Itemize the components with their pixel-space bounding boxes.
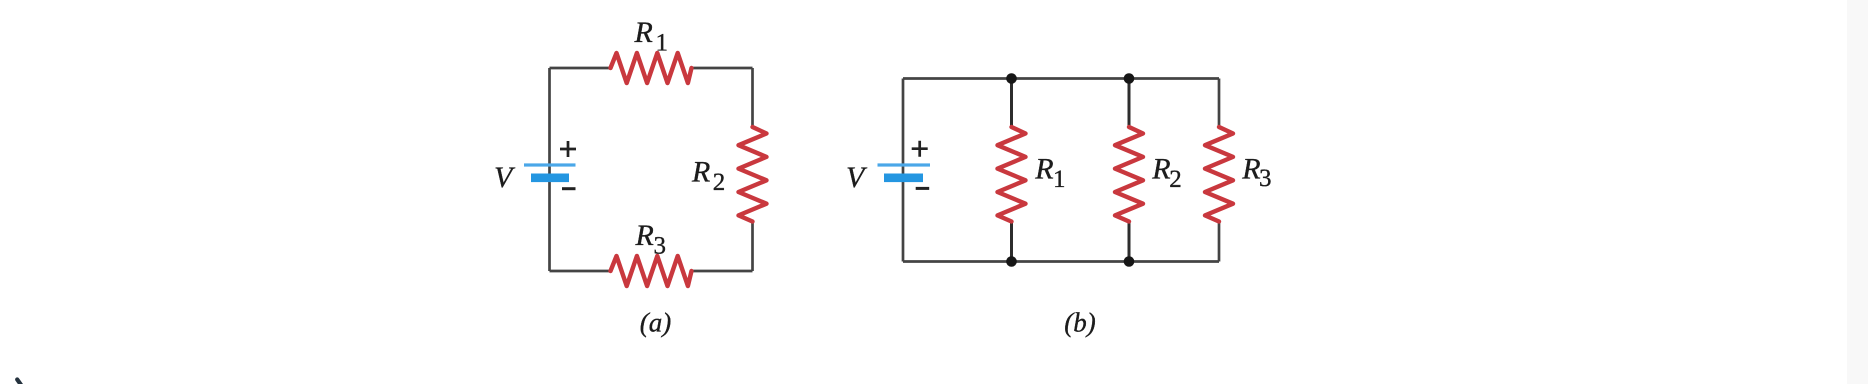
wire: (a) right edge lower: [751, 222, 754, 272]
wire: (b) left edge: [902, 79, 905, 262]
battery V (a) thin plate: [524, 163, 576, 166]
wire: (b) branch 2 upper: [1128, 79, 1131, 128]
resistor R3 (a) zigzag: [611, 256, 692, 286]
svg-text:V: V: [494, 161, 516, 194]
battery V (a) minus sign: [562, 187, 576, 190]
svg-text:1: 1: [656, 29, 669, 56]
node: junction dot top branch 2: [1124, 73, 1135, 84]
battery V (b) minus sign: [916, 187, 930, 190]
battery V (a) thick plate: [531, 174, 569, 183]
svg-text:3: 3: [654, 232, 667, 259]
battery V (a) plus sign: [560, 141, 576, 157]
svg-text:R: R: [634, 16, 653, 49]
battery V (b) thin plate: [878, 163, 931, 166]
wire: (a) top-left segment: [550, 67, 611, 70]
wire: (b) bottom edge: [903, 260, 1219, 263]
page edge band: [1847, 0, 1868, 384]
svg-text:R: R: [691, 156, 710, 189]
resistor R1 (a) zigzag: [611, 53, 692, 83]
wire: (b) right edge lower: [1218, 222, 1221, 262]
svg-text:(b): (b): [1064, 308, 1095, 338]
wire: (a) bottom-left segment: [550, 270, 611, 273]
wire: (b) top edge: [903, 77, 1219, 80]
battery V (b) plus sign: [912, 141, 928, 157]
svg-text:R: R: [635, 219, 654, 252]
battery V (b) thick plate: [884, 174, 923, 183]
wire: (b) branch 1 lower: [1010, 222, 1013, 262]
wire: (b) branch 1 upper: [1010, 79, 1013, 128]
wire: (a) bottom-right segment: [691, 270, 753, 273]
svg-text:R: R: [1241, 153, 1260, 186]
wire: (a) left edge: [548, 68, 551, 271]
svg-text:3: 3: [1259, 165, 1272, 192]
svg-text:2: 2: [1169, 166, 1182, 193]
node: junction dot bottom branch 2: [1124, 256, 1135, 267]
svg-text:1: 1: [1053, 166, 1066, 193]
node: junction dot top branch 1: [1006, 73, 1017, 84]
svg-text:2: 2: [713, 169, 726, 196]
svg-text:R: R: [1034, 153, 1053, 186]
svg-text:R: R: [1151, 153, 1170, 186]
wire: (b) right edge upper: [1218, 79, 1221, 128]
svg-text:(a): (a): [640, 308, 671, 338]
resistor R3 (b) zigzag: [1205, 127, 1233, 222]
wire: (a) top-right segment: [691, 67, 753, 70]
wire: (b) branch 2 lower: [1128, 222, 1131, 262]
wire: (a) right edge upper: [751, 68, 754, 127]
node: junction dot bottom branch 1: [1006, 256, 1017, 267]
resistor R2 (b) zigzag: [1115, 127, 1143, 222]
resistor R1 (b) zigzag: [998, 127, 1026, 222]
svg-text:V: V: [846, 161, 868, 194]
resistor R2 (a) zigzag: [739, 127, 767, 222]
stray mark bottom-left: [17, 380, 21, 384]
